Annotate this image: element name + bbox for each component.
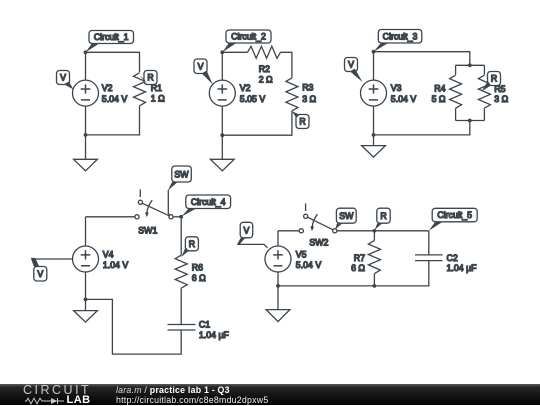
wire top to switch: [86, 216, 135, 218]
label V (voltmeter tag on V3): [345, 58, 363, 83]
svg-text:5.04 V: 5.04 V: [296, 260, 322, 270]
label V (voltmeter tag on V5): [237, 222, 268, 248]
wire bottom: [374, 121, 470, 135]
svg-text:1 Ω: 1 Ω: [151, 94, 165, 104]
svg-text:V2: V2: [240, 83, 251, 93]
svg-text:V: V: [243, 226, 249, 236]
svg-text:1.04 V: 1.04 V: [103, 260, 129, 270]
svg-text:C2: C2: [447, 253, 458, 263]
wire R7 node to C2 branch: [374, 230, 428, 232]
svg-text:R4: R4: [434, 84, 445, 94]
footer text: [116, 385, 268, 405]
wire top: [374, 52, 470, 66]
svg-text:V4: V4: [103, 249, 114, 259]
label R (voltmeter tag on R5): [482, 72, 501, 92]
svg-text:V5: V5: [296, 249, 307, 259]
svg-text:3 Ω: 3 Ω: [494, 94, 508, 104]
capacitor C1: [168, 325, 196, 331]
label SW (tag on SW1): [168, 166, 192, 215]
svg-text:R7: R7: [354, 253, 365, 263]
ground: [266, 286, 290, 322]
node parallel top: [468, 63, 472, 67]
svg-text:1.04 μF: 1.04 μF: [447, 263, 478, 273]
resistor R7: [368, 231, 380, 286]
resistor R6: [175, 255, 187, 288]
svg-text:3 Ω: 3 Ω: [302, 94, 316, 104]
resistor R1: [134, 73, 146, 106]
svg-text:R: R: [189, 239, 195, 249]
label R (voltmeter tag on R1): [140, 71, 157, 85]
label V (voltmeter tag, circuit 2): [194, 59, 213, 85]
node R7 top: [373, 229, 377, 233]
svg-text:6 Ω: 6 Ω: [192, 273, 206, 283]
voltage source V3: [361, 52, 387, 135]
wire node to R6: [180, 217, 182, 255]
ground: [74, 135, 98, 171]
label SW (tag on SW2): [335, 208, 356, 229]
label V (voltmeter tag on V2): [57, 71, 74, 90]
label Circuit_1: [86, 31, 134, 53]
label Circuit_2: [222, 30, 271, 52]
wire parallel bottom bar: [456, 120, 485, 122]
svg-text:5 Ω: 5 Ω: [432, 94, 446, 104]
capacitor C2: [415, 255, 443, 261]
CircuitLab logo: [22, 383, 24, 385]
svg-text:Circuit_2: Circuit_2: [231, 32, 266, 42]
svg-text:C1: C1: [199, 320, 210, 330]
wire C1 to bottom rail: [86, 299, 182, 354]
resistor R4: [450, 65, 462, 120]
svg-text:2 Ω: 2 Ω: [259, 75, 273, 85]
node R7 bottom: [373, 284, 377, 288]
svg-text:R: R: [380, 211, 386, 221]
svg-text:5.05 V: 5.05 V: [240, 94, 266, 104]
svg-text:Circuit_5: Circuit_5: [437, 210, 472, 220]
wire R6 to C1: [180, 288, 182, 324]
svg-text:1.04 μF: 1.04 μF: [199, 330, 230, 340]
footer bar: [0, 384, 540, 405]
svg-text:R2: R2: [259, 64, 270, 74]
node V5 bottom: [276, 284, 280, 288]
node parallel bottom: [468, 119, 472, 123]
svg-text:V3: V3: [391, 83, 402, 93]
svg-text:Circuit_1: Circuit_1: [94, 32, 129, 42]
node bottom-left: [84, 133, 88, 137]
label Circuit_3: [374, 30, 422, 52]
svg-text:V: V: [60, 73, 66, 83]
svg-text:R: R: [147, 73, 153, 83]
wire parallel top bar: [456, 64, 485, 66]
switch SW2: [299, 203, 337, 233]
wire right-bottom: [86, 106, 140, 135]
svg-text:6 Ω: 6 Ω: [351, 263, 365, 273]
svg-text:Circuit_3: Circuit_3: [383, 31, 418, 41]
ground: [210, 135, 234, 171]
wire top to switch: [278, 230, 299, 232]
node top-left: [84, 50, 88, 54]
svg-text:V: V: [198, 62, 204, 72]
label V (voltmeter tag on V4): [31, 258, 73, 281]
node top-left: [372, 50, 376, 54]
resistor R5: [478, 65, 490, 120]
wire top-right: [281, 52, 292, 78]
ground: [74, 299, 98, 322]
svg-text:SW: SW: [174, 170, 189, 180]
wire switch to node: [173, 216, 181, 218]
wire top: [222, 51, 247, 53]
svg-text:SW: SW: [339, 211, 354, 221]
resistor R3: [286, 78, 298, 111]
wire right-bottom: [222, 111, 292, 135]
node bottom-left: [372, 133, 376, 137]
switch SW1: [135, 189, 173, 219]
svg-text:R: R: [299, 117, 305, 127]
svg-text:R: R: [491, 74, 497, 84]
wire top: [86, 52, 140, 72]
svg-text:5.04 V: 5.04 V: [102, 94, 128, 104]
svg-text:R3: R3: [302, 83, 313, 93]
label Circuit_5: [429, 208, 477, 230]
wire switch to R7 node: [337, 230, 375, 232]
svg-text:5.04 V: 5.04 V: [391, 94, 417, 104]
resistor R2: [248, 46, 281, 58]
wire C2 to bottom rail: [278, 261, 429, 286]
voltage source V4: [73, 217, 99, 300]
svg-text:SW2: SW2: [309, 238, 328, 248]
voltage source V5: [265, 231, 291, 286]
svg-text:Circuit_4: Circuit_4: [191, 197, 226, 207]
svg-text:R6: R6: [192, 262, 203, 272]
svg-text:V: V: [348, 60, 354, 70]
svg-text:V2: V2: [102, 83, 113, 93]
label R (voltmeter tag on R6): [181, 237, 198, 257]
node right of switch: [179, 215, 183, 219]
label Circuit_4: [181, 195, 230, 217]
node bottom-left: [84, 298, 88, 302]
label R (voltmeter tag on R7): [375, 208, 391, 230]
voltage source V2: [73, 52, 99, 135]
voltage source V2 (circuit 2): [209, 52, 235, 135]
node bottom-left: [220, 133, 224, 137]
node top-left: [220, 50, 224, 54]
wire C2 branch down: [428, 231, 430, 255]
ground: [362, 135, 386, 157]
svg-text:V: V: [37, 269, 43, 279]
label R (voltmeter tag on R3): [292, 111, 309, 128]
svg-text:SW1: SW1: [138, 225, 157, 235]
